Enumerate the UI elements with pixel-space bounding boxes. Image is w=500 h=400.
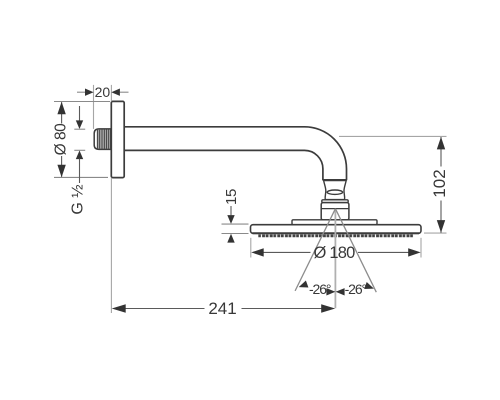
- dim 102 arrows: [437, 137, 445, 150]
- dim 26deg center arrows: [326, 288, 335, 295]
- svg-text:Ø 180: Ø 180: [314, 244, 356, 262]
- head bottom edge: [253, 232, 420, 234]
- shower head slab: [251, 225, 422, 234]
- dim 20 line: [77, 91, 85, 93]
- dim 15 ext bottom: [222, 233, 249, 235]
- wall flange: [111, 101, 124, 177]
- dim 20 extension lines: [93, 85, 95, 129]
- spray cone left line: [295, 209, 335, 291]
- pipe end line: [323, 180, 346, 181]
- dim 102 line: [440, 137, 442, 167]
- spray centerline: [334, 209, 336, 308]
- dim O80 line: [61, 102, 63, 123]
- svg-text:241: 241: [208, 299, 236, 318]
- dim 241 line: [125, 308, 204, 310]
- dim 26deg left arrow at diagonal: [297, 281, 308, 291]
- dim O80 arrows: [57, 102, 65, 115]
- dim 102 ext top: [339, 135, 447, 137]
- ball joint neck: [324, 181, 347, 200]
- dim O180 line: [264, 251, 311, 253]
- G1/2 tick top: [74, 128, 85, 130]
- svg-text:15: 15: [223, 189, 240, 205]
- dim 26deg right arrow at diagonal: [364, 282, 375, 292]
- svg-text:-26°: -26°: [345, 281, 367, 297]
- dim 102 ext bottom: [424, 232, 447, 234]
- dim 15 ext top: [222, 223, 249, 225]
- svg-text:102: 102: [430, 169, 449, 197]
- spray cone right line: [335, 209, 376, 293]
- G1/2 leader line lower: [79, 159, 81, 183]
- nut divider: [321, 208, 348, 210]
- dim O180 arrows: [251, 248, 264, 256]
- dim 20 arrows: [85, 89, 94, 96]
- dim 15 leader: [230, 206, 232, 215]
- dim O180 ext lines: [250, 238, 252, 258]
- spray nozzles row: [258, 235, 414, 238]
- svg-text:20: 20: [95, 84, 111, 100]
- head top plate: [292, 220, 377, 225]
- wall thread nipple G1/2 (hatched): [94, 129, 111, 150]
- ball lens: [327, 190, 342, 194]
- svg-text:G ½: G ½: [69, 184, 86, 214]
- shower arm (bent pipe): [124, 127, 347, 180]
- svg-text:Ø 80: Ø 80: [53, 123, 70, 155]
- nut top rim: [322, 200, 348, 203]
- dim O80 extension lines: [54, 101, 110, 103]
- nut body: [321, 203, 349, 220]
- G1/2 leader line upper: [79, 106, 81, 121]
- dim 241 arrows: [112, 304, 126, 312]
- dim 241 ext line (wall): [110, 178, 112, 313]
- G1/2 tick bottom: [74, 149, 85, 151]
